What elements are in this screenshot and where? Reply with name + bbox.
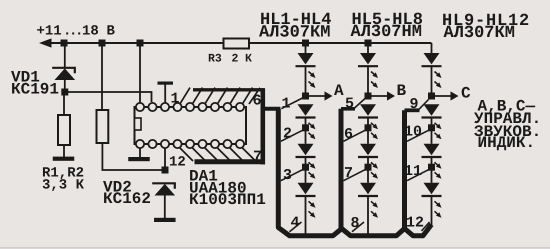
- wire VD2 to ground: [164, 195, 166, 219]
- svg-text:АЛ307КМ: АЛ307КМ: [444, 24, 515, 43]
- ground under VD2: [154, 218, 176, 222]
- bus chain2 vertical: [341, 109, 405, 236]
- wire chain 3 drop: [431, 43, 433, 53]
- node pin 7: [365, 164, 372, 171]
- LED HL11: [422, 144, 442, 179]
- zener diode VD1: [52, 68, 75, 80]
- wire R2 to VD2 node: [102, 143, 165, 170]
- svg-text:4: 4: [291, 215, 300, 232]
- wire +V rail right: [249, 42, 432, 44]
- svg-text:7: 7: [344, 165, 353, 182]
- IC top pin circle 3: [161, 103, 169, 111]
- IC top pin circle 9: [236, 103, 244, 111]
- resistor R3: [224, 39, 250, 49]
- wire HL7 segment: [367, 158, 369, 183]
- svg-text:КС162: КС162: [103, 190, 151, 208]
- wire output В: [368, 95, 389, 97]
- scan edge artifact bottom: [0, 247, 550, 249]
- IC top pin circle 8: [223, 103, 231, 111]
- wire rail to IC pin 18: [139, 43, 141, 104]
- svg-text:1: 1: [171, 91, 180, 108]
- svg-text:В: В: [397, 82, 407, 100]
- LED HL5: [358, 53, 378, 88]
- common bar symbol: [158, 82, 174, 85]
- node pin 1: [302, 93, 309, 100]
- wire HL9 to node: [431, 67, 433, 96]
- node rail-R2: [99, 40, 106, 47]
- hatch wire top pin 5: [230, 88, 240, 104]
- svg-text:А: А: [334, 82, 344, 100]
- wire tap pin 4: [290, 222, 302, 232]
- wire tap bus3 to node9: [419, 100, 429, 110]
- wire tap bus2 to node5: [354, 99, 365, 109]
- svg-text:6: 6: [344, 126, 353, 143]
- node pin 9: [428, 93, 435, 100]
- node VD1-R1: [61, 89, 68, 96]
- IC bottom pin circle 8: [223, 140, 231, 148]
- IC bottom pin circle 7: [211, 140, 219, 148]
- node pin 10: [428, 124, 435, 131]
- wire +V rail left: [48, 42, 224, 44]
- node rail-IC: [137, 40, 144, 47]
- wire HL12 to bus: [431, 197, 433, 225]
- hatch wire bottom pin 9: [205, 148, 219, 162]
- wire node to R1: [63, 92, 65, 115]
- node rail chain 1: [302, 40, 309, 47]
- wire common bar to pin: [164, 85, 166, 105]
- IC top pin circle 5: [186, 103, 194, 111]
- node rail-VD1: [61, 40, 68, 47]
- wire chain 1 drop: [305, 43, 307, 53]
- IC DA1 body: [135, 107, 247, 144]
- IC bottom pin circle 2: [148, 140, 156, 148]
- wire HL1 to node: [305, 67, 307, 96]
- wire VD1 to node: [64, 80, 66, 92]
- bus bar IC bottom: [195, 159, 266, 164]
- wire chain 2 drop: [367, 43, 369, 53]
- wire HL6 segment: [367, 118, 369, 144]
- node rail chain 2: [365, 40, 372, 47]
- IC key notch: [135, 118, 142, 130]
- wire IC pin to ground: [139, 148, 141, 158]
- wire HL10 segment: [431, 118, 433, 144]
- ground under R1: [53, 157, 75, 161]
- svg-text:КС191: КС191: [11, 81, 59, 99]
- svg-text:8: 8: [351, 215, 360, 232]
- svg-text:+11...18В: +11...18В: [37, 24, 116, 40]
- wire tap pin 6: [344, 130, 366, 141]
- resistor R1: [58, 115, 70, 145]
- LED HL9: [422, 53, 442, 88]
- svg-text:3,3 К: 3,3 К: [42, 178, 85, 194]
- wire tap pin 7: [344, 170, 366, 181]
- arrow output В: [387, 91, 395, 100]
- ground under IC: [128, 157, 150, 161]
- hatch wire bottom pin 10: [217, 148, 231, 162]
- svg-text:ИНДИК.: ИНДИК.: [478, 134, 536, 152]
- svg-text:С: С: [461, 85, 471, 103]
- hatch wire bottom pin 7: [180, 148, 194, 162]
- wire tap pin 12: [422, 222, 430, 231]
- wire rail to R2: [101, 43, 103, 110]
- wire output С: [432, 95, 453, 97]
- node pin 11: [428, 164, 435, 171]
- node pin 5: [365, 93, 372, 100]
- bus bar IC right: [260, 88, 265, 164]
- IC top pin circle 2: [148, 103, 156, 111]
- bus chain2 stub: [341, 107, 355, 111]
- wire HL11 segment: [431, 158, 433, 183]
- LED HL6: [358, 104, 378, 139]
- node pin 6: [365, 124, 372, 131]
- IC bottom pin circle 1: [136, 140, 144, 148]
- hatch wire top pin 1: [180, 88, 190, 104]
- LED HL7: [358, 144, 378, 179]
- bus chain3 stub: [405, 108, 420, 112]
- IC top pin circle 1: [136, 103, 144, 111]
- hatch wire top corner: [249, 88, 260, 104]
- IC bottom pin circle 3: [161, 140, 169, 148]
- svg-text:7: 7: [253, 149, 262, 166]
- svg-text:2: 2: [283, 126, 292, 143]
- LED HL10: [422, 104, 442, 139]
- wire rail to VD1: [64, 43, 66, 68]
- wire tap pin 3: [281, 170, 303, 181]
- wire tap pin 8: [352, 222, 364, 232]
- node VD2: [162, 167, 169, 174]
- wire HL3 segment: [305, 158, 307, 183]
- LED HL2: [296, 104, 316, 139]
- svg-text:1: 1: [282, 96, 291, 113]
- wire HL2 segment: [305, 118, 307, 144]
- wire tap pin 1: [281, 98, 302, 109]
- node pin 2: [302, 124, 309, 131]
- IC bottom pin circle 9: [236, 140, 244, 148]
- wire output А: [306, 95, 327, 97]
- arrow output А: [325, 91, 333, 100]
- IC top pin circle 7: [211, 103, 219, 111]
- wire HL5 to node: [367, 67, 369, 96]
- LED HL3: [296, 144, 316, 179]
- bus chain1 vertical: [278, 109, 342, 236]
- wire tap pin 11: [407, 170, 429, 181]
- hatch wire bottom pin 12: [242, 148, 256, 162]
- svg-text:R32К: R32К: [208, 53, 252, 66]
- resistor R2: [97, 110, 109, 143]
- IC top pin circle 6: [198, 103, 206, 111]
- wire R1 to ground: [63, 145, 65, 157]
- svg-text:12: 12: [169, 155, 186, 171]
- LED HL4: [296, 183, 316, 218]
- svg-text:АЛ307НМ: АЛ307НМ: [351, 23, 422, 42]
- bus chain3 vertical: [405, 110, 432, 235]
- zener diode VD2: [152, 183, 175, 195]
- wire VD1 node to IC pin: [65, 92, 152, 102]
- LED HL12: [422, 183, 442, 218]
- wire HL4 to bus: [305, 197, 307, 236]
- hatch wire top pin 3: [205, 88, 215, 104]
- wire IC pin12 to VD2: [164, 148, 166, 170]
- node pin 3: [302, 164, 309, 171]
- LED HL8: [358, 183, 378, 218]
- hatch wire top pin 4: [218, 88, 228, 104]
- wire HL8 to bus: [367, 197, 369, 236]
- svg-text:6: 6: [253, 93, 262, 110]
- bus bar IC top: [193, 88, 265, 91]
- hatch wire top pin 2: [193, 88, 203, 104]
- svg-text:3: 3: [283, 167, 292, 184]
- IC bottom pin circle 5: [186, 140, 194, 148]
- IC bottom pin circle 6: [198, 140, 206, 148]
- bus stub from IC to chain1: [263, 107, 281, 111]
- IC top pin circle 4: [173, 103, 181, 111]
- hatch wire top pin 6: [243, 88, 253, 104]
- wire tap pin 10: [407, 130, 429, 141]
- wire tap pin 2: [281, 130, 303, 141]
- svg-text:АЛ307КМ: АЛ307КМ: [259, 24, 330, 43]
- hatch wire bottom pin 11: [230, 148, 244, 162]
- LED HL1: [296, 53, 316, 88]
- arrow output С: [451, 91, 459, 100]
- svg-text:К1003ПП1: К1003ПП1: [189, 191, 266, 209]
- arrow power input: [39, 38, 52, 47]
- hatch wire bottom pin 8: [192, 148, 206, 162]
- IC bottom pin circle 4: [173, 140, 181, 148]
